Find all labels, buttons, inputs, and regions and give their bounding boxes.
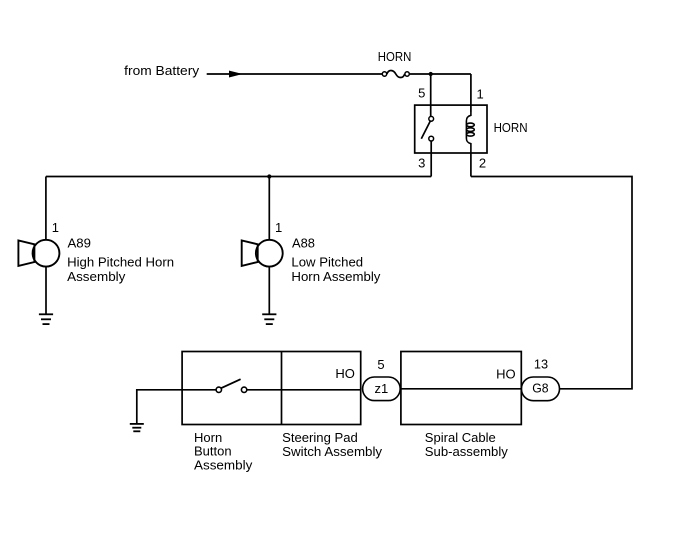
- svg-text:G8: G8: [532, 381, 548, 396]
- spiral cable box: [401, 352, 521, 425]
- svg-text:3: 3: [418, 156, 425, 171]
- svg-text:Assembly: Assembly: [67, 269, 126, 284]
- svg-text:HORN: HORN: [378, 49, 412, 64]
- svg-text:Steering Pad: Steering Pad: [282, 430, 358, 445]
- horn button switch: [182, 379, 361, 392]
- wire fuse to relay top: [410, 73, 471, 75]
- wire to relay pin 5: [430, 74, 432, 116]
- svg-text:Switch Assembly: Switch Assembly: [282, 444, 382, 459]
- svg-text:Horn: Horn: [194, 430, 222, 445]
- svg-text:A88: A88: [292, 236, 315, 251]
- svg-text:HO: HO: [496, 366, 516, 381]
- svg-text:High Pitched Horn: High Pitched Horn: [67, 255, 174, 270]
- wire to relay pin 1: [470, 74, 472, 112]
- svg-text:Horn Assembly: Horn Assembly: [291, 269, 381, 284]
- relay U1 box: [415, 105, 487, 153]
- wire relay pin 3 down: [430, 141, 432, 177]
- wire drop to horn A89: [45, 177, 47, 240]
- wire drop to horn A88: [268, 177, 270, 240]
- ground bottom left: [130, 424, 144, 431]
- connector G8 oval: [521, 377, 559, 401]
- svg-text:5: 5: [418, 86, 425, 101]
- svg-text:1: 1: [275, 220, 282, 235]
- ground for A89: [39, 314, 53, 324]
- wire horn A89 to ground: [45, 267, 47, 315]
- svg-text:from Battery: from Battery: [124, 63, 200, 78]
- horn A89 symbol: [18, 240, 59, 267]
- svg-text:1: 1: [52, 220, 59, 235]
- wire to bottom ground: [137, 390, 182, 424]
- svg-text:Low Pitched: Low Pitched: [291, 255, 363, 270]
- ground for A88: [262, 314, 276, 324]
- wire horn A88 to ground: [268, 267, 270, 315]
- horn A88 symbol: [242, 240, 283, 267]
- node junction at relay pin 5: [429, 72, 433, 76]
- wire relay pin 2 down: [470, 153, 472, 177]
- svg-text:A89: A89: [68, 236, 92, 251]
- svg-text:2: 2: [479, 156, 486, 171]
- wire from Battery feed with arrow: [207, 71, 383, 77]
- wire through spiral cable box: [400, 388, 521, 390]
- relay coil: [466, 112, 474, 153]
- wire pin2 to riser: [471, 177, 632, 389]
- svg-text:HORN: HORN: [494, 120, 528, 135]
- svg-text:Sub-assembly: Sub-assembly: [425, 444, 508, 459]
- svg-text:Button: Button: [194, 444, 232, 459]
- node junction on rail: [267, 174, 271, 178]
- svg-text:5: 5: [377, 357, 384, 372]
- svg-text:Assembly: Assembly: [194, 458, 253, 473]
- box divider: [281, 352, 283, 425]
- svg-text:HO: HO: [335, 366, 355, 381]
- wire left rail: [46, 176, 431, 178]
- svg-text:13: 13: [534, 357, 548, 372]
- horn button / steering pad box: [182, 352, 361, 425]
- relay switch contact: [421, 116, 433, 141]
- fuse HORN: [382, 70, 409, 77]
- svg-text:Spiral Cable: Spiral Cable: [425, 430, 496, 445]
- svg-text:1: 1: [477, 87, 484, 102]
- svg-text:z1: z1: [375, 381, 389, 396]
- connector z1 oval: [363, 377, 401, 401]
